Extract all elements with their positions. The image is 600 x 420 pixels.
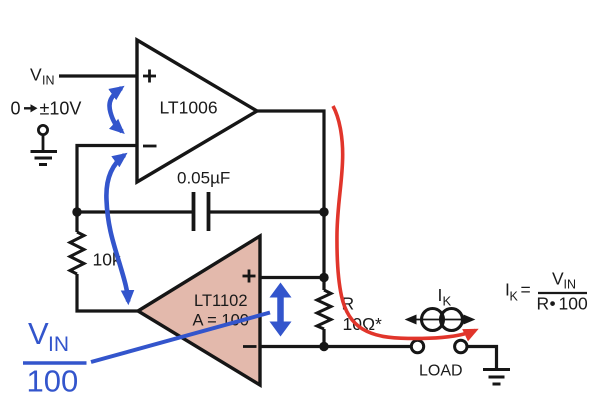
junction dot C (R top) [319, 273, 328, 282]
formula IK = VIN / (R•100) [505, 269, 588, 314]
svg-text:V: V [552, 269, 564, 289]
svg-text:LT1102: LT1102 [194, 292, 248, 310]
blue annotation arrow 1 (U1 input nulling) [109, 88, 122, 132]
op-amp U1 LT1006 [137, 40, 257, 182]
resistor R1 R 10Ω* [317, 290, 382, 347]
junction dot B (right cap node) [319, 207, 328, 216]
svg-text:IN: IN [564, 278, 577, 292]
wire U1 output [257, 111, 324, 290]
wire capacitor branch left [77, 210, 193, 213]
wire U1 inverting input [77, 146, 137, 233]
label V_IN [30, 65, 55, 88]
svg-text:R: R [537, 294, 550, 314]
blue annotation arrow 3 (voltage across R sense) [270, 283, 292, 337]
op-amp U2 LT1102 [138, 236, 260, 385]
blue annotation arrow 2 (feedback S-curve) [106, 155, 128, 302]
resistor R2 10k [70, 232, 121, 274]
svg-text:K: K [443, 294, 452, 309]
svg-text:V: V [30, 65, 42, 85]
wire bottom node to load terminal [324, 345, 411, 348]
wire R2 bottom to U2 output [77, 274, 138, 311]
ground G2 [483, 370, 510, 385]
svg-text:•: • [550, 294, 556, 314]
wire T2 to ground G2 [467, 347, 497, 370]
wire V_IN input to U1 + [59, 74, 137, 77]
ground G1 with terminal circle [31, 125, 58, 164]
svg-text:100: 100 [559, 294, 588, 314]
wire capacitor branch right [209, 210, 324, 213]
svg-text:0: 0 [11, 99, 21, 119]
capacitor C1 0.05µF [177, 169, 230, 232]
svg-text:0.05µF: 0.05µF [177, 169, 230, 188]
svg-text:LT1006: LT1006 [160, 98, 218, 118]
current source symbol IK [407, 285, 473, 331]
blue label VIN/100 fraction with pointer line [23, 313, 270, 399]
junction dot D (R bottom) [319, 342, 328, 351]
svg-text:V: V [28, 316, 49, 351]
junction dot A (left cap node) [72, 207, 81, 216]
red current path arrow [333, 106, 475, 338]
label 0→±10V [11, 99, 82, 119]
terminal T1 (open circle) [411, 340, 423, 352]
svg-text:LOAD: LOAD [419, 363, 463, 380]
svg-text:K: K [510, 290, 519, 304]
svg-text:=: = [521, 280, 531, 300]
svg-text:±10V: ±10V [40, 99, 82, 119]
terminal T2 (open circle) [455, 340, 467, 352]
wire U2 - input [260, 345, 324, 348]
wire U2 + input [260, 276, 324, 279]
svg-text:IN: IN [48, 333, 69, 356]
svg-text:IN: IN [42, 74, 55, 88]
svg-text:100: 100 [27, 364, 79, 399]
